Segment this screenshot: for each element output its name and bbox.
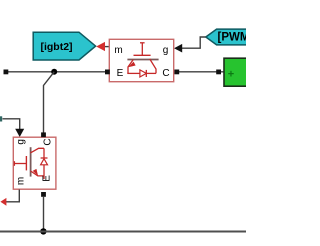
IGBT/Diode block (rotated): [13, 137, 56, 189]
svg-text:+: +: [228, 68, 234, 80]
diode cathode bar (rotated): [41, 157, 48, 159]
sum block (green): [224, 58, 250, 86]
wire: m output of rotated block: [6, 190, 19, 202]
black arrowhead into g port: [174, 44, 182, 53]
diode triangle (rotated): [41, 159, 48, 165]
from tag [PWM2]: [206, 29, 260, 45]
junction node on E wire: [51, 69, 57, 75]
svg-text:g: g: [163, 45, 169, 56]
svg-text:[igbt2]: [igbt2]: [40, 41, 72, 53]
IGBT/Diode block (top): [109, 39, 173, 81]
svg-text:C: C: [162, 68, 169, 79]
gate lead (rotated): [14, 163, 26, 165]
wire: m output to goto tag: [102, 46, 110, 48]
svg-text:E: E: [117, 68, 124, 79]
wire: branch from junction down to C of rotated block: [44, 72, 55, 133]
black arrowhead into g port of rotated block: [15, 129, 24, 137]
port square: E terminal of top block: [105, 70, 110, 75]
wire: gate feed to rotated block: [3, 119, 20, 130]
port square: E wire left end: [4, 70, 9, 75]
bus wire across bottom: [0, 231, 246, 233]
port square: E terminal of rotated block: [41, 192, 46, 197]
wire: from tag to g input: [180, 37, 206, 48]
emitter arrow (rotated): [33, 169, 38, 176]
svg-text:g: g: [15, 139, 26, 145]
svg-text:E: E: [42, 175, 53, 182]
body bar (rotated): [30, 147, 32, 176]
junction node on bus: [40, 228, 46, 234]
wire: C terminal to sum block: [175, 71, 224, 73]
port square: C terminal of rotated block: [41, 132, 46, 137]
gate plate (rotated): [25, 156, 27, 170]
emitter diagonal (rotated): [31, 171, 44, 176]
emitter rail (rotated): [43, 165, 45, 179]
svg-text:m: m: [114, 45, 122, 56]
wire: E of rotated block down to bus: [43, 197, 45, 232]
collector rail (rotated): [43, 148, 45, 158]
wire: E terminal horizontal: [6, 71, 106, 73]
collector diagonal (rotated): [30, 148, 44, 153]
gate terminal tick (rotated): [13, 161, 15, 166]
red arrowhead at left edge (m goto): [0, 198, 6, 206]
port square: sum block input: [216, 70, 221, 75]
port square: C terminal of top block: [174, 70, 179, 75]
svg-text:[PWM2]: [PWM2]: [218, 32, 247, 44]
goto tag [igbt2]: [33, 32, 95, 60]
svg-text:C: C: [43, 138, 54, 145]
clipped from tag stub at left edge: [0, 116, 2, 121]
red arrowhead into goto tag: [96, 42, 105, 51]
svg-text:m: m: [15, 177, 26, 185]
